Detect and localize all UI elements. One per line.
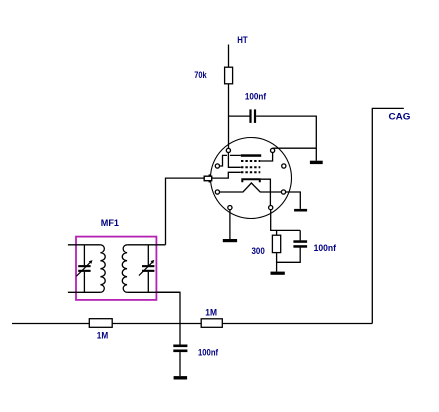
MF1 secondary top wire <box>127 244 165 246</box>
anode plate bar <box>241 154 261 157</box>
resistor 70k <box>225 67 233 84</box>
ground (AGC cap) <box>174 376 188 379</box>
wire screen pin to ground <box>273 147 317 149</box>
wire 300 top stub <box>276 230 278 235</box>
wire cathode cap bottom <box>277 247 301 262</box>
trimmer capacitor CV1 plates <box>78 265 90 272</box>
wire grid row1 to pin 2 <box>260 153 272 161</box>
tube pin 7 (bottom-left) <box>228 206 232 210</box>
wire pin 7 down <box>229 210 231 239</box>
wire cap right lead to ground <box>256 116 316 161</box>
svg-text:100nf: 100nf <box>198 347 219 358</box>
grid g1 (dashed row 3) <box>241 171 260 173</box>
svg-text:300: 300 <box>252 246 265 257</box>
wire HT lead <box>228 45 230 68</box>
wire tube top cap to MF1 secondary <box>166 178 205 245</box>
capacitor C 100nf AGC <box>173 345 187 353</box>
transformer MF1 box <box>76 237 156 300</box>
wire anode lead from pin 3 <box>220 155 241 166</box>
svg-text:100nf: 100nf <box>245 91 267 102</box>
wire 300 bottom to ground <box>276 253 278 272</box>
wire pin 8 to 300/100nf <box>271 210 301 231</box>
net CAG corner wire <box>372 108 404 323</box>
resistor 1M (left) <box>89 319 112 328</box>
grid top cap terminal <box>204 174 212 182</box>
tube pin 1 (top-left) <box>226 148 230 152</box>
resistor 1M (right) <box>201 319 222 328</box>
svg-text:HT: HT <box>237 35 248 46</box>
wire pin 1 to screen grid <box>228 153 240 168</box>
tube pin 3 (left) <box>215 164 219 168</box>
MF1 primary top wire <box>68 244 101 246</box>
resistor 300 <box>272 235 280 252</box>
wire cathode cap top stub <box>299 230 301 240</box>
MF1 secondary trimmer branch <box>147 245 149 292</box>
tube pin 4 (right) <box>282 164 286 168</box>
tube pin 6 (right-lower) <box>281 190 285 194</box>
trimmer capacitor CV2 plates <box>142 265 154 272</box>
ground (screen bypass) <box>310 161 323 164</box>
capacitor C 100nf anode decoupling <box>249 109 256 123</box>
wire bottom rail <box>12 323 372 325</box>
ground (cathode network) <box>271 272 285 275</box>
trimmer CV1 arrow <box>76 262 90 276</box>
MF1 secondary bottom wire <box>127 291 180 293</box>
wire bracket to pin 8 <box>261 179 271 205</box>
tube pin 8 (bottom-right) <box>269 206 273 210</box>
svg-text:70k: 70k <box>194 70 207 81</box>
svg-text:1M: 1M <box>205 308 217 319</box>
wire cap left lead <box>229 115 250 117</box>
svg-text:100nf: 100nf <box>314 243 337 254</box>
MF1 primary bottom wire <box>68 291 101 293</box>
capacitor C 100nf cathode <box>293 240 307 247</box>
svg-text:1M: 1M <box>97 330 108 341</box>
tube pin 2 (top-right) <box>271 148 275 152</box>
grid g2+g4 (dashed row 2) <box>241 166 260 168</box>
trimmer CV2 arrow <box>139 262 152 275</box>
grid g3 (dashed row 1) <box>241 160 260 162</box>
ground (pin 7) <box>223 239 237 242</box>
ground (pin 6) <box>294 209 307 212</box>
svg-text:MF1: MF1 <box>101 218 120 229</box>
wire cathode pin 6 to ground <box>286 192 301 209</box>
beam plates bracket <box>242 179 259 182</box>
cathode zigzag <box>220 183 282 192</box>
MF1 primary coil L1 <box>100 245 105 292</box>
svg-text:CAG: CAG <box>389 112 411 123</box>
MF1 primary trimmer branch <box>83 245 85 292</box>
tube pin 5 (left-lower) <box>215 190 219 194</box>
wire MF1 secondary bottom to AGC cap <box>156 292 180 344</box>
wire 70k to tube pin 1 <box>228 84 230 148</box>
wire AGC cap bottom stub <box>179 352 181 376</box>
MF1 secondary coil L2 <box>122 245 127 292</box>
tube V1 envelope <box>211 138 292 219</box>
wire grid g1 to top cap <box>212 172 241 178</box>
